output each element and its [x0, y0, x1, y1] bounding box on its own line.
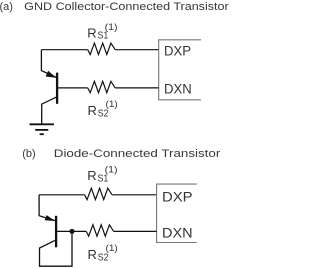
ground (a) [30, 124, 54, 134]
svg-text:(1): (1) [105, 164, 118, 174]
base bar [56, 73, 58, 104]
box DXP/DXN (b) [157, 184, 197, 242]
wire RS1 to box (a) [115, 49, 159, 51]
svg-text:(1): (1) [105, 22, 118, 32]
resistor RS2 (a) [88, 81, 116, 92]
resistor RS1 (b) [85, 188, 113, 199]
svg-text:DXP: DXP [164, 44, 191, 59]
emitter arrowhead [45, 215, 56, 221]
junction dot (b) [70, 229, 75, 234]
wire emitter-top (b) [39, 194, 85, 196]
resistor RS2 (b) [86, 225, 114, 236]
wire RS1 to box (b) [112, 194, 157, 196]
svg-text:(a): (a) [0, 1, 13, 13]
svg-text:GND Collector-Connected Transi: GND Collector-Connected Transistor [24, 1, 229, 13]
transistor Q2 (b) PNP diode-connected [39, 195, 72, 266]
wire RS2 to box (b) [114, 230, 157, 232]
svg-text:(b): (b) [22, 148, 35, 160]
collector diagonal [42, 97, 57, 124]
emitter wire with corner [41, 50, 56, 78]
wire base to RS2 (a) [57, 87, 88, 89]
svg-text:DXP: DXP [162, 189, 193, 204]
svg-text:(1): (1) [106, 243, 118, 253]
emitter wire with corner [39, 195, 55, 221]
resistor RS1 (a) [88, 43, 116, 54]
collector loop to base junction [40, 231, 73, 266]
box DXP/DXN (a) [159, 40, 201, 100]
svg-text:Diode-Connected Transistor: Diode-Connected Transistor [54, 148, 221, 160]
base bar [55, 216, 57, 248]
svg-text:DXN: DXN [164, 81, 192, 96]
wire emitter-top (a) [41, 49, 87, 51]
wire base to junction (b) [56, 230, 86, 232]
transistor Q1 (a) PNP [41, 50, 57, 124]
svg-text:DXN: DXN [162, 225, 193, 240]
emitter arrowhead [46, 71, 57, 78]
svg-text:(1): (1) [106, 99, 118, 109]
wire RS2 to box (a) [115, 87, 159, 89]
